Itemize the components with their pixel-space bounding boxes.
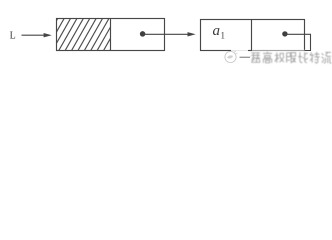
watermark logo (faint circle emblem) [225, 51, 238, 63]
watermark dash [240, 56, 251, 58]
node a1 box [201, 20, 305, 51]
pointer dot of node a1 [282, 31, 287, 36]
head node box [57, 19, 165, 51]
pointer dot of head node [140, 31, 146, 37]
watermark text (simulated CJK strokes) [251, 52, 331, 64]
label a1 [213, 23, 226, 41]
head node divider [110, 19, 112, 51]
svg-text:a: a [213, 23, 221, 39]
svg-text:1: 1 [221, 31, 226, 41]
wire: arrow from head node pointer to node a1 [143, 32, 196, 36]
watermark background fade over node a1 bottom edge [231, 49, 248, 51]
wire: pointer of node a1 going right then down then left (wrap to next row, cropped) [285, 34, 311, 50]
node a1 divider [251, 20, 253, 51]
svg-text:L: L [10, 31, 16, 42]
hatched data field of head node [39, 18, 128, 52]
wire: arrow from L to head node [22, 33, 52, 37]
